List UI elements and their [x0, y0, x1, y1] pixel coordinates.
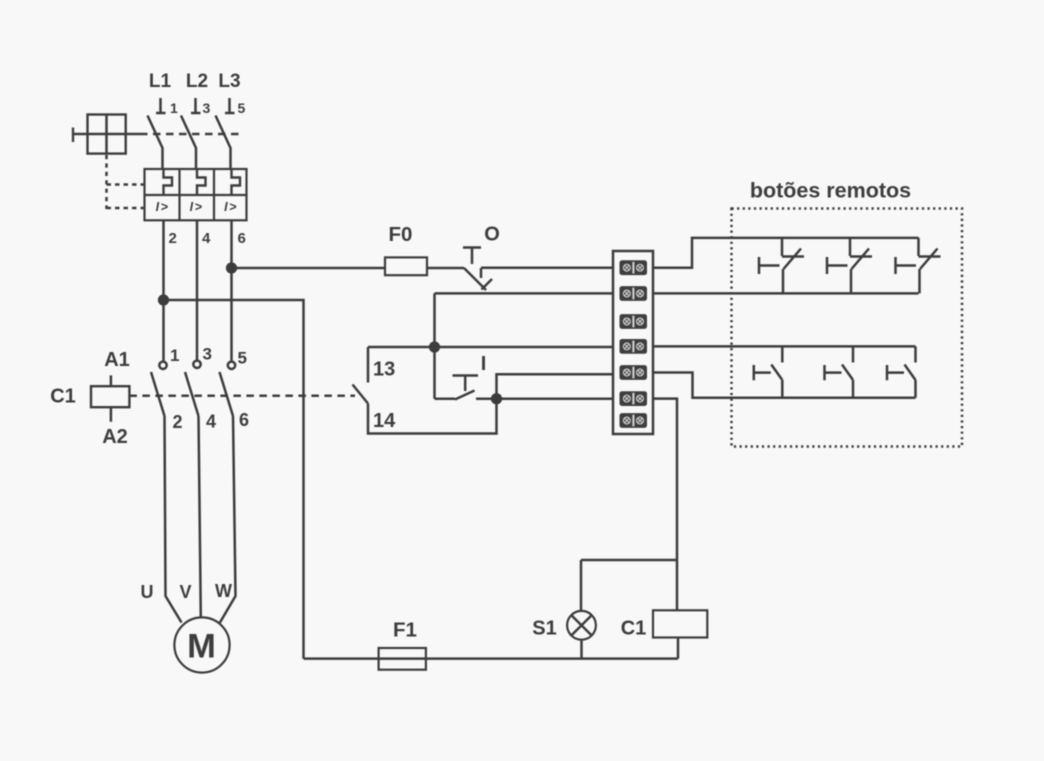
svg-text:botões remotos: botões remotos: [750, 179, 911, 203]
svg-text:U: U: [141, 582, 154, 602]
svg-text:5: 5: [238, 349, 247, 368]
svg-text:2: 2: [173, 412, 183, 432]
svg-text:3: 3: [203, 100, 211, 116]
svg-text:L2: L2: [186, 71, 208, 92]
svg-text:5: 5: [238, 100, 246, 116]
svg-text:2: 2: [169, 230, 177, 247]
svg-text:A1: A1: [104, 349, 130, 371]
svg-text:F1: F1: [393, 619, 417, 642]
svg-text:M: M: [187, 628, 216, 666]
svg-text:O: O: [484, 224, 500, 246]
svg-text:L3: L3: [218, 71, 240, 92]
svg-text:6: 6: [239, 410, 249, 430]
svg-text:3: 3: [203, 345, 212, 364]
svg-text:I: I: [481, 353, 487, 375]
svg-text:I>: I>: [224, 200, 238, 214]
svg-text:13: 13: [373, 359, 395, 381]
svg-text:14: 14: [373, 410, 396, 432]
svg-text:S1: S1: [532, 618, 556, 640]
svg-text:W: W: [215, 581, 232, 601]
svg-text:4: 4: [206, 412, 216, 432]
svg-text:C1: C1: [621, 618, 647, 640]
svg-text:1: 1: [170, 346, 179, 365]
svg-text:C1: C1: [50, 386, 76, 408]
svg-text:4: 4: [202, 230, 211, 247]
svg-text:A2: A2: [102, 426, 128, 448]
svg-text:1: 1: [170, 100, 178, 116]
svg-text:I>: I>: [190, 200, 204, 214]
svg-text:L1: L1: [149, 71, 172, 92]
svg-text:V: V: [179, 582, 191, 602]
svg-text:F0: F0: [389, 223, 413, 246]
svg-text:6: 6: [238, 230, 246, 247]
svg-text:I>: I>: [156, 200, 170, 214]
